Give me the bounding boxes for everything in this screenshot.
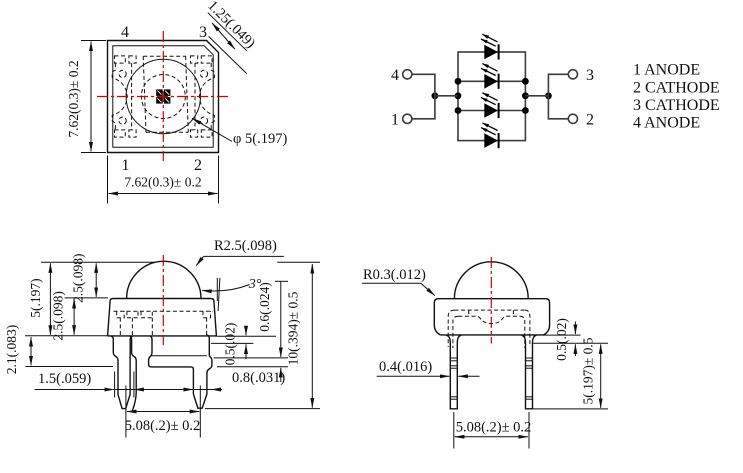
dim 5.08 view B: extensions	[454, 412, 529, 449]
svg-text:5.08(.2)± 0.2: 5.08(.2)± 0.2	[456, 420, 532, 436]
wire terminal 3 to right rail	[548, 74, 567, 96]
side view B: red center line	[490, 257, 492, 344]
terminal 2 circle	[568, 114, 577, 123]
dim 0.5 view A: arrows	[245, 328, 247, 336]
svg-text:R2.5(.098): R2.5(.098)	[214, 238, 277, 254]
lead frame right holes	[200, 70, 207, 77]
side view A: dim levels left	[25, 262, 320, 366]
dim 10: ticks	[205, 408, 320, 410]
side view A: front-right lead	[193, 335, 212, 408]
schematic outer box / rails	[458, 52, 525, 141]
svg-text:2.5(.098): 2.5(.098)	[71, 254, 86, 304]
svg-text:φ 5(.197): φ 5(.197)	[233, 131, 287, 147]
dim 5.08 view A: line	[127, 411, 199, 413]
label R2.5: leader	[204, 255, 284, 257]
lead frame right inner edge (dashed)	[194, 63, 196, 130]
dim 1.5/0.8 arrow line	[35, 389, 222, 391]
svg-text:1 ANODE: 1 ANODE	[633, 62, 700, 79]
3 degree draft lines	[217, 278, 220, 311]
dim 0.4: arrows	[377, 375, 450, 377]
dim 7.62 bottom: extension lines	[108, 156, 219, 204]
LED D4	[481, 123, 499, 148]
phi5 leader	[192, 118, 232, 141]
svg-text:0.4(.016): 0.4(.016)	[379, 359, 432, 375]
side view B right levels	[533, 335, 609, 409]
svg-text:7.62(0.3)± 0.2: 7.62(0.3)± 0.2	[124, 175, 201, 190]
side view A: epoxy dome R2.5	[127, 261, 201, 298]
side view A: tie bar line	[150, 355, 207, 357]
terminal 1 circle	[403, 114, 412, 123]
dim 5 view B: line	[600, 344, 602, 408]
dim 7.62 left: extension lines	[81, 41, 106, 153]
lead frame right tabs (dashed)	[201, 56, 212, 63]
wire right junction to rail	[525, 95, 548, 97]
wire terminal 2 to junction	[548, 96, 567, 119]
svg-text:0.5(.02): 0.5(.02)	[223, 323, 238, 366]
svg-text:4: 4	[391, 67, 399, 84]
inner dashed circle	[141, 75, 185, 119]
wire terminal 1 to junction	[413, 96, 435, 119]
dim 10: line	[311, 264, 313, 408]
dim 0.8: up arrow	[280, 368, 282, 382]
dim 0.6: line with down arrow	[280, 281, 282, 357]
side view A: red center line	[162, 255, 164, 345]
svg-text:4 ANODE: 4 ANODE	[633, 114, 700, 131]
LED D1	[481, 34, 499, 59]
dim 2.1: line	[30, 337, 32, 365]
side view B: body outline	[434, 299, 549, 335]
svg-text:3: 3	[586, 67, 594, 84]
terminal 4 circle	[403, 70, 412, 79]
package top view: inner body outline	[113, 46, 213, 147]
lead frame left tabs (dashed)	[115, 56, 126, 63]
dim 5.08 view A: extensions	[126, 386, 200, 438]
svg-text:2 CATHODE: 2 CATHODE	[633, 79, 720, 96]
svg-text:2.5(.098): 2.5(.098)	[51, 291, 66, 341]
side view B: lead crimp marks	[450, 357, 457, 359]
svg-text:5.08(.2)± 0.2: 5.08(.2)± 0.2	[125, 418, 201, 434]
svg-text:2: 2	[586, 112, 594, 129]
wire row 3	[458, 110, 525, 112]
wire terminal 4 to left rail	[413, 74, 435, 96]
dim 7.62 left: dimension line	[90, 42, 92, 152]
package top view: outer body outline with chamfered corner	[108, 41, 219, 153]
dim 2.5 body: line	[73, 299, 75, 335]
junction dots	[432, 78, 552, 114]
side view A: body outline	[108, 299, 217, 336]
dim 1.25 chamfer: arrow segment	[212, 23, 235, 49]
LED D2	[481, 64, 499, 89]
lead frame right outline with notch arc (dashed)	[199, 63, 214, 130]
svg-text:5(.197)± 0.5: 5(.197)± 0.5	[581, 337, 596, 404]
side view B: internal reflector (dashed)	[448, 310, 530, 347]
svg-text:10(.394)± 0.5: 10(.394)± 0.5	[286, 291, 301, 365]
svg-text:2: 2	[194, 157, 202, 174]
dim 5(.197): line	[49, 263, 51, 335]
svg-text:0.8(.031): 0.8(.031)	[232, 370, 285, 386]
dim 1.25 chamfer: extension lines	[208, 13, 247, 74]
dim 5.08 view B: line	[455, 436, 528, 438]
3 degree arc arrow	[202, 285, 249, 292]
svg-text:1: 1	[122, 157, 130, 174]
wire row 2	[458, 80, 525, 82]
svg-text:2.1(.083): 2.1(.083)	[4, 325, 19, 375]
svg-text:3 CATHODE: 3 CATHODE	[633, 97, 720, 114]
red center line vertical	[162, 31, 164, 161]
lead frame left outline with notch arc (dashed)	[112, 63, 127, 130]
lead frame left holes	[119, 70, 126, 77]
side view B: left lead	[446, 335, 461, 409]
svg-text:3: 3	[199, 24, 207, 41]
svg-text:7.62(0.3)± 0.2: 7.62(0.3)± 0.2	[66, 60, 81, 137]
terminal 3 circle	[568, 70, 577, 79]
svg-text:1: 1	[391, 112, 399, 129]
svg-text:4: 4	[121, 24, 129, 41]
dim 0.6: top tick	[275, 280, 288, 282]
red center line horizontal	[97, 96, 230, 98]
dim 7.62 bottom: dimension line	[109, 193, 218, 195]
side view A: front-left lead	[111, 336, 133, 409]
lens circle phi5	[126, 59, 200, 133]
svg-text:1.5(.059): 1.5(.059)	[38, 371, 91, 387]
label R0.3: leader	[362, 282, 421, 284]
side view A: internal lead frame (dashed)	[114, 310, 214, 312]
svg-text:5(.197): 5(.197)	[28, 278, 43, 317]
dim 1.5 extension bars	[115, 372, 134, 398]
svg-text:0.5(.02): 0.5(.02)	[554, 318, 569, 361]
dim 0.5 view B: arrows	[574, 322, 576, 335]
LED chip (2x2 pads)	[156, 89, 163, 96]
lead frame left inner edge (dashed)	[131, 63, 133, 130]
pin function list	[633, 62, 720, 132]
LED D3	[481, 93, 499, 118]
right side level lines	[211, 336, 288, 367]
side view B: epoxy dome	[454, 262, 528, 299]
side view B: right lead	[522, 335, 537, 409]
reflector trapezoid (dashed)	[143, 56, 188, 132]
dim 2.5 dome: line	[95, 263, 97, 297]
wire left junction to rail	[435, 95, 458, 97]
svg-text:0.6(.024): 0.6(.024)	[257, 282, 272, 332]
side view A: rear-left lead	[130, 336, 194, 411]
svg-text:R0.3(.012): R0.3(.012)	[363, 267, 426, 283]
